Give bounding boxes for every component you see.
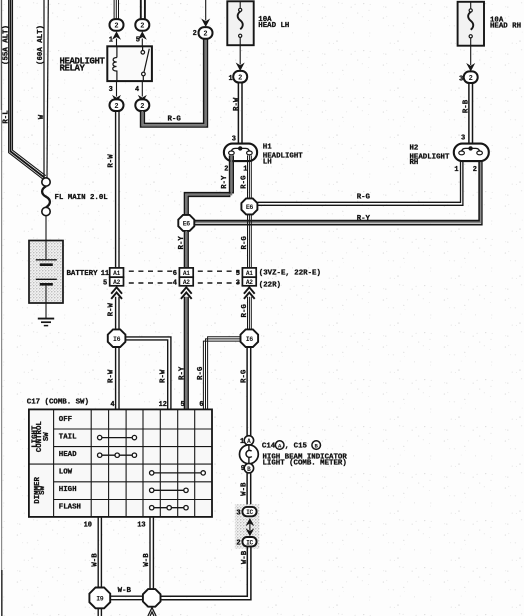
svg-text:RELAY: RELAY (60, 64, 86, 74)
svg-text:R-Y: R-Y (178, 236, 186, 250)
circle connector A (high beam ind.) (244, 436, 253, 445)
chevron arrow (below A2 battery) (111, 287, 122, 299)
fuse 10A HEAD RH (458, 2, 484, 46)
svg-text:(3VZ-E, 22R-E): (3VZ-E, 22R-E) (259, 270, 321, 278)
wire R-G I6 branch to pin6 (triple) (203, 337, 240, 410)
wire stub pin3 (116, 81, 118, 96)
svg-text:R-W: R-W (108, 302, 116, 316)
svg-text:R-W: R-W (108, 154, 116, 168)
svg-text:13: 13 (137, 522, 145, 530)
connector pair A1/A2 (battery R-W) (110, 268, 124, 286)
label DIMMER SW (rotated) (34, 477, 47, 504)
svg-text:5: 5 (103, 280, 107, 288)
svg-text:(60A ALT): (60A ALT) (37, 25, 45, 65)
junction connector I9 (89, 588, 110, 609)
svg-text:2: 2 (473, 166, 477, 174)
wire battery to ground (45, 303, 47, 318)
wire R-G A2 to I6 (triple) (248, 297, 252, 330)
wire R-Y H1 pin2 to E6 (thick band) (185, 155, 234, 215)
label C14 A, C15 B (262, 441, 321, 451)
svg-text:A1: A1 (246, 270, 253, 277)
svg-text:3: 3 (459, 76, 463, 84)
headlight relay box (107, 46, 152, 81)
svg-text:FL MAIN 2.0L: FL MAIN 2.0L (55, 194, 109, 202)
junction connector E6 (right) (241, 198, 257, 214)
svg-text:4: 4 (173, 280, 177, 288)
label LIGHT CONTROL SW (rotated) (32, 421, 52, 453)
switch contacts HIGH row (150, 488, 189, 492)
arrow down into oval (pin4) (138, 95, 147, 104)
svg-text:2: 2 (469, 75, 473, 83)
svg-text:R-G: R-G (240, 175, 248, 189)
fuse 10A HEAD LH (227, 1, 253, 45)
svg-text:A: A (247, 438, 251, 445)
junction connector E6 (left) (178, 215, 194, 231)
node H2 pin3 junction dot (468, 146, 472, 150)
svg-text:SW: SW (43, 432, 51, 441)
label H1 HEADLIGHT LH (263, 143, 303, 166)
junction connector (blank octagon) (143, 589, 161, 607)
svg-text:R-W: R-W (108, 369, 116, 383)
switch contacts LOW row (150, 471, 206, 475)
wire into oval from top (205, 0, 207, 21)
svg-text:W-B: W-B (118, 587, 132, 595)
svg-text:1: 1 (454, 166, 458, 174)
label 10A HEAD RH (490, 17, 521, 31)
arrow down (between IC) (246, 528, 255, 536)
wire R-G horizontal to H2 pin1 (257, 155, 463, 205)
svg-text:OFF: OFF (59, 416, 72, 424)
arrow down into oval (fuse RH) (466, 63, 475, 72)
svg-text:10: 10 (84, 522, 92, 530)
wire between arrows (249, 524, 251, 531)
svg-text:R-G: R-G (241, 236, 249, 250)
connector oval IC (top) (242, 507, 256, 516)
svg-text:A1: A1 (113, 270, 120, 277)
svg-text:A2: A2 (246, 279, 253, 286)
wire W-B pin13 down (double) (150, 517, 153, 589)
svg-text:2: 2 (114, 103, 118, 111)
connector oval 2 (fuse RH out) (464, 71, 478, 83)
H2 filament left (459, 151, 465, 155)
H1 filament right (247, 151, 253, 155)
svg-text:(22R): (22R) (259, 281, 281, 289)
chevron arrow (below A2 R-G) (244, 287, 255, 299)
wire R-G relay pin4 to connector 2 (thick band) (141, 38, 208, 127)
svg-text:SW: SW (39, 485, 47, 494)
svg-text:4: 4 (135, 86, 139, 94)
svg-text:FLASH: FLASH (59, 503, 81, 511)
arrow up (between IC) (246, 518, 255, 526)
svg-text:6: 6 (199, 401, 203, 409)
arrow up into oval (pin5) (138, 31, 147, 40)
combination switch C17 box (29, 409, 212, 517)
svg-text:5: 5 (181, 401, 185, 409)
arrow up into oval (pin1) (112, 31, 121, 40)
svg-text:A2: A2 (113, 279, 120, 286)
relay coil (113, 46, 117, 81)
svg-text:I6: I6 (246, 336, 254, 343)
svg-text:6: 6 (173, 270, 177, 278)
page edge line (0, 0, 2, 616)
wire stub pin1 (116, 39, 118, 47)
svg-text:R-G: R-G (241, 369, 249, 383)
wire (55A ALT) R-L thick triple line (9, 0, 46, 179)
wire W-B IC down to bottom run (161, 546, 251, 599)
svg-text:W: W (38, 114, 46, 119)
connector oval 2 (below relay pin4) (135, 99, 149, 111)
svg-text:2: 2 (224, 166, 228, 174)
svg-text:1: 1 (109, 36, 113, 44)
ground (38, 319, 54, 326)
svg-text:2: 2 (114, 23, 118, 31)
shaded connector block (235, 504, 259, 549)
wire R-G E6 to A1 (triple) (248, 214, 252, 268)
connector oval IC (bottom) (242, 537, 256, 546)
svg-text:1: 1 (243, 166, 247, 174)
H1 filament left (229, 151, 235, 155)
svg-text:R-B: R-B (463, 99, 471, 113)
svg-text:2: 2 (238, 74, 242, 82)
wire fuse LH down (239, 45, 241, 64)
arrow down into oval (pin3) (112, 95, 121, 104)
svg-text:HEAD LH: HEAD LH (258, 22, 289, 30)
label H2 HEADLIGHT RH (410, 145, 450, 167)
svg-text:R-Y: R-Y (221, 175, 229, 189)
svg-text:C14: C14 (262, 443, 276, 451)
svg-text:2: 2 (193, 30, 197, 38)
svg-text:W-B: W-B (241, 482, 249, 496)
svg-text:4: 4 (110, 401, 114, 409)
fusible link FL MAIN 2.0L (42, 178, 50, 216)
wire relay pin1 top feed (triple) (114, 0, 118, 19)
wire R-Y horizontal to H2 pin2 (thick) (194, 155, 482, 224)
wire R-G I6 down to indicator (double) (247, 347, 251, 436)
svg-text:5: 5 (136, 36, 140, 44)
junction connector I6 (left) (108, 329, 126, 347)
svg-text:2: 2 (140, 23, 144, 31)
svg-text:R-W: R-W (159, 369, 167, 383)
wire R-W A2 to I6 (double) (116, 297, 119, 330)
svg-text:2: 2 (140, 103, 144, 111)
svg-text:W-B: W-B (92, 553, 100, 567)
wire W-B pin10 to I9 (double) (98, 517, 101, 588)
svg-text:LIGHT (COMB. METER): LIGHT (COMB. METER) (263, 459, 347, 467)
svg-text:R-W: R-W (233, 97, 241, 111)
wire W-B indicator to IC (double) (247, 473, 251, 507)
wire R-B fuse to H2 (double) (469, 83, 473, 146)
svg-text:E6: E6 (246, 204, 254, 211)
headlight H2 capsule (454, 144, 489, 162)
wire stub pin5 (141, 39, 143, 47)
circle connector B (high beam ind.) (244, 464, 253, 473)
svg-text:W-B: W-B (241, 550, 249, 564)
svg-text:2: 2 (203, 31, 207, 39)
wire R-W relay out to A1 (double) (116, 111, 119, 268)
H2 inner contour (462, 148, 480, 154)
svg-text:B: B (247, 466, 251, 473)
svg-text:2: 2 (236, 539, 240, 547)
svg-text:H1: H1 (263, 143, 272, 151)
svg-text:I9: I9 (96, 596, 104, 603)
svg-text:C17 (COMB. SW): C17 (COMB. SW) (27, 398, 89, 406)
wire W-B bottom run I9 to octagon (double) (110, 596, 143, 600)
wire R-W I6 branch to pin12 (double) (125, 337, 170, 410)
svg-text:H2: H2 (410, 145, 419, 153)
wire below I9 (98, 608, 101, 616)
arrow down into oval (top right) (201, 19, 210, 28)
svg-text:E6: E6 (183, 221, 191, 228)
high beam indicator bulb (240, 445, 259, 464)
arrow down into oval (fuse LH) (236, 63, 245, 72)
svg-text:3: 3 (236, 509, 240, 517)
switch contacts FLASH row (150, 506, 189, 510)
svg-text:IC: IC (246, 539, 253, 546)
svg-text:LH: LH (263, 158, 272, 166)
svg-text:11: 11 (101, 270, 109, 278)
wire R-W I6 to comb sw pin4 (double) (116, 347, 119, 410)
connector oval 2 (top right) (199, 27, 213, 39)
H1 inner contour (231, 148, 249, 154)
wire fuse RH down (470, 46, 472, 65)
svg-text:LOW: LOW (59, 468, 73, 476)
svg-text:R-G: R-G (197, 366, 205, 380)
svg-text:R-Y: R-Y (178, 366, 186, 380)
connector pair A1/A2 (R-Y) (179, 268, 193, 286)
svg-text:RH: RH (410, 159, 419, 167)
node H1 pin3 junction dot (238, 146, 242, 150)
svg-text:BATTERY: BATTERY (67, 270, 99, 278)
svg-text:1: 1 (240, 438, 244, 446)
label HEADLIGHT RELAY (60, 57, 106, 74)
svg-text:A2: A2 (183, 279, 190, 286)
arrow (below blank octagon) (148, 608, 156, 616)
connector oval 2 (above relay pin1) (110, 19, 124, 31)
junction connector I6 (right) (241, 329, 259, 347)
svg-text:R-L: R-L (2, 110, 10, 124)
H2 filament right (477, 151, 483, 155)
switch contacts TAIL row (98, 435, 137, 439)
svg-text:R-Y: R-Y (357, 215, 371, 223)
svg-text:3: 3 (232, 136, 236, 144)
wire stub pin4 (141, 81, 143, 96)
wire (60A ALT) W double line (44, 0, 48, 178)
svg-text:R-G: R-G (357, 194, 371, 202)
connector oval 2 (fuse LH out) (233, 71, 247, 83)
connector oval 2 (below relay pin3) (110, 99, 124, 111)
svg-text:(55A ALT): (55A ALT) (3, 25, 11, 65)
svg-text:HEAD: HEAD (59, 451, 77, 459)
connector oval 2 (above relay pin5) (135, 19, 149, 31)
svg-text:HIGH: HIGH (59, 486, 77, 494)
switch contacts HEAD row (98, 453, 137, 457)
wire battery feed (45, 216, 47, 241)
wire R-G H1 pin1 to E6 (triple) (248, 155, 252, 198)
svg-text:9: 9 (241, 465, 245, 473)
battery (29, 241, 63, 304)
wire R-Y E6 to A1 (185, 231, 189, 268)
wire relay pin5 top feed (thick) (141, 0, 145, 19)
svg-text:1: 1 (229, 75, 233, 83)
svg-text:I6: I6 (113, 336, 121, 343)
headlight H1 capsule (224, 144, 257, 162)
svg-text:W-B: W-B (143, 553, 151, 567)
svg-text:3: 3 (461, 135, 465, 143)
wire R-Y A2 to comb sw pin5 (thick) (185, 297, 189, 410)
relay switch (141, 46, 149, 81)
svg-text:, C15: , C15 (285, 443, 308, 451)
svg-text:HEAD RH: HEAD RH (490, 23, 521, 31)
wire R-W fuse to H1 (double) (238, 83, 242, 147)
label 10A HEAD LH (258, 16, 289, 30)
svg-text:TAIL: TAIL (59, 433, 77, 441)
chevron arrow (below A2 R-Y) (181, 287, 192, 299)
dashed connector row lines (129, 271, 240, 283)
connector pair A1/A2 (R-G) (242, 268, 256, 286)
svg-text:IC: IC (246, 509, 253, 516)
svg-text:12: 12 (159, 401, 167, 409)
svg-text:A1: A1 (183, 270, 190, 277)
svg-text:R-G: R-G (241, 304, 249, 318)
svg-text:3: 3 (109, 86, 113, 94)
svg-text:R-G: R-G (168, 116, 182, 124)
